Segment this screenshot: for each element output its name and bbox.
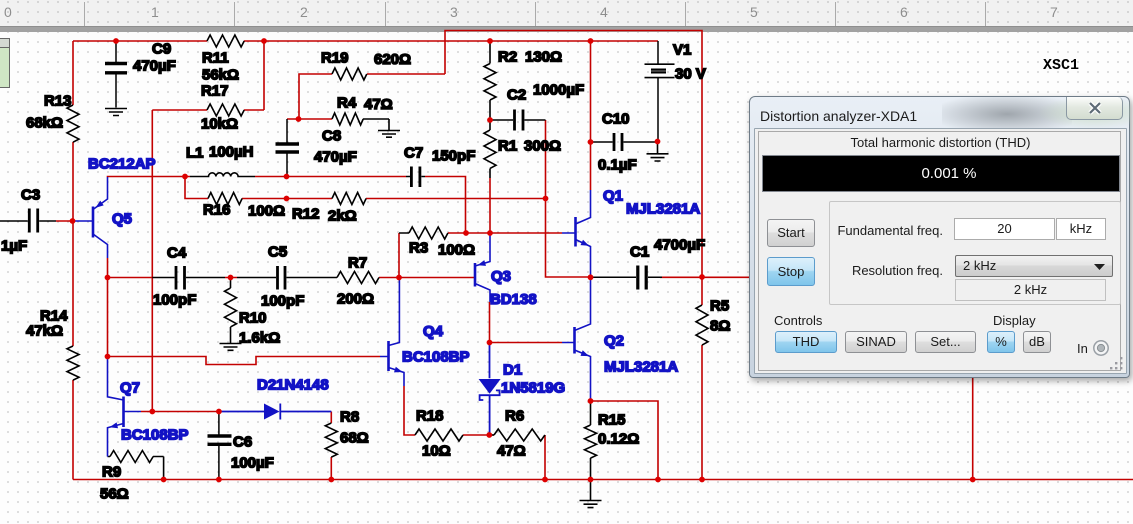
svg-text:470µF: 470µF <box>314 149 357 166</box>
node R16/R12 <box>284 196 290 202</box>
wire Q7 collector to Q4 base <box>108 357 381 365</box>
svg-text:4700µF: 4700µF <box>654 237 705 254</box>
svg-text:100Ω: 100Ω <box>438 242 475 259</box>
top ruler <box>0 0 1133 26</box>
svg-text:10kΩ: 10kΩ <box>201 116 238 133</box>
wire R4 node <box>287 118 332 120</box>
capacitor C8 <box>276 119 357 177</box>
resistor R17 <box>201 83 244 133</box>
svg-text:8Ω: 8Ω <box>710 318 730 335</box>
svg-text:100pF: 100pF <box>153 292 196 309</box>
node rail R5 <box>699 477 705 483</box>
node Q2 emitter/R15 <box>588 398 594 404</box>
node rail R8 <box>328 477 334 483</box>
title text <box>760 108 917 124</box>
dialog client area <box>754 128 1127 374</box>
wire Q2 base node <box>490 342 563 344</box>
wire C2 tap down to output <box>546 120 591 277</box>
fundamental freq label <box>831 223 943 238</box>
wire Q7 base row <box>141 411 220 413</box>
svg-text:47Ω: 47Ω <box>364 96 393 113</box>
dB button <box>1023 331 1051 353</box>
node Q3 coll/Q4 coll/D1/Q2 base <box>487 340 493 346</box>
capacitor C9 <box>105 41 176 108</box>
node Q7 base/R17 <box>149 409 155 415</box>
svg-text:MJL3281A: MJL3281A <box>626 201 700 218</box>
svg-text:BC108BP: BC108BP <box>121 427 189 444</box>
svg-text:150pF: 150pF <box>432 148 475 165</box>
svg-text:200Ω: 200Ω <box>337 291 374 308</box>
node Q7 collector <box>105 354 111 360</box>
svg-text:R16: R16 <box>203 202 231 219</box>
ground of R10 <box>220 344 242 351</box>
svg-text:0.1µF: 0.1µF <box>598 157 637 174</box>
svg-text:R3: R3 <box>409 240 428 257</box>
svg-text:R11: R11 <box>202 50 229 67</box>
distortion analyzer dialog XDA1 <box>749 96 1130 378</box>
svg-text:1000µF: 1000µF <box>533 82 584 99</box>
transistor Q4 <box>380 278 470 387</box>
wire Q1 base node row <box>448 232 562 234</box>
wire D2 cathode to R8 <box>330 412 332 480</box>
ground of C9 <box>105 109 127 116</box>
node C6/D2 <box>216 409 222 415</box>
svg-text:R12: R12 <box>292 206 320 223</box>
wire Q4 emitter to R18 <box>404 386 545 480</box>
svg-text:R1: R1 <box>498 138 517 155</box>
title bar blur blob <box>942 97 1072 128</box>
wire feedback net top <box>445 31 702 278</box>
node Q5 collector <box>105 275 111 281</box>
svg-text:R17: R17 <box>201 83 229 100</box>
ground of V1 <box>647 142 669 162</box>
THD button <box>775 331 837 353</box>
node C9/top rail <box>113 38 119 44</box>
capacitor C3 <box>0 187 56 255</box>
svg-text:56Ω: 56Ω <box>100 486 129 503</box>
svg-text:130Ω: 130Ω <box>525 49 562 66</box>
wire output node to R5 <box>660 277 749 480</box>
node L1 right <box>284 174 290 180</box>
resistor R2 <box>484 41 562 120</box>
svg-text:100µH: 100µH <box>209 144 254 161</box>
node rail C6 <box>216 477 222 483</box>
THD display <box>762 155 1120 192</box>
Start button <box>767 219 815 247</box>
svg-text:R7: R7 <box>348 255 367 272</box>
battery V1 <box>645 41 706 142</box>
svg-text:C4: C4 <box>167 245 187 262</box>
wire R17 to Q7 base vertical <box>151 110 153 412</box>
ground of output stage <box>580 480 602 508</box>
capacitor C7 <box>404 145 475 188</box>
svg-text:100Ω: 100Ω <box>248 203 285 220</box>
wire R16 parallel branch <box>185 177 546 199</box>
svg-text:R9: R9 <box>102 464 121 481</box>
node rail R6 <box>542 477 548 483</box>
diode D2 1N4148 <box>220 377 331 420</box>
svg-text:D21N4148: D21N4148 <box>257 377 329 394</box>
svg-text:68Ω: 68Ω <box>340 430 369 447</box>
SINAD button <box>845 331 907 353</box>
svg-text:R2: R2 <box>498 49 517 66</box>
svg-text:1µF: 1µF <box>1 238 27 255</box>
svg-text:C5: C5 <box>268 244 287 261</box>
Set button <box>915 331 976 353</box>
svg-text:30 V: 30 V <box>675 66 706 83</box>
svg-text:D1: D1 <box>503 362 522 379</box>
resistor R4 <box>332 95 393 126</box>
svg-text:C8: C8 <box>322 128 341 145</box>
node C7/R3 <box>463 230 469 236</box>
wire R3 left to R7 node <box>398 233 400 278</box>
svg-text:BD138: BD138 <box>490 291 537 308</box>
node output C1 left <box>588 274 594 280</box>
node D1/R18/R6 <box>486 432 492 438</box>
wire left vertical R13/R14 branch <box>72 41 74 480</box>
svg-text:Q5: Q5 <box>112 211 132 228</box>
svg-text:MJL3281A: MJL3281A <box>604 359 678 376</box>
node C10/V1 minus <box>655 139 661 145</box>
resistor R19 <box>321 50 411 81</box>
wire Q5 emitter node to L1 <box>108 177 466 234</box>
svg-text:R10: R10 <box>239 310 267 327</box>
svg-text:R5: R5 <box>710 298 729 315</box>
resize grip <box>1109 356 1125 372</box>
resistor R18 <box>415 408 463 460</box>
svg-text:100µF: 100µF <box>231 455 274 472</box>
resistor R8 <box>325 409 368 458</box>
wire C3 to Q5 base <box>56 220 73 222</box>
node rail R15 <box>588 477 594 483</box>
svg-text:C3: C3 <box>21 187 40 204</box>
resolution freq readout <box>955 279 1106 301</box>
svg-text:2kΩ: 2kΩ <box>328 208 357 225</box>
resistor R3 <box>399 227 475 259</box>
wire Q2 emitter row <box>591 401 659 480</box>
node V+ branch <box>588 38 594 44</box>
node rail instrument drop <box>970 477 976 483</box>
svg-text:R15: R15 <box>598 412 626 429</box>
resolution freq dropdown <box>955 255 1113 277</box>
svg-text:R4: R4 <box>337 95 357 112</box>
svg-text:C10: C10 <box>602 111 630 128</box>
node output C1 right/R5 <box>699 274 705 280</box>
svg-text:Q3: Q3 <box>491 268 511 285</box>
svg-text:47Ω: 47Ω <box>497 443 526 460</box>
node C3/Q5 base <box>70 218 76 224</box>
svg-text:68kΩ: 68kΩ <box>26 115 63 132</box>
node R1/Q1 base <box>487 230 493 236</box>
fundamental freq input <box>954 218 1055 240</box>
partially visible instrument icon at left edge <box>0 38 10 88</box>
svg-text:R8: R8 <box>340 409 359 426</box>
transistor Q7 <box>108 357 189 457</box>
inner frame <box>758 131 1121 371</box>
resistor R9 <box>100 451 164 503</box>
svg-text:300Ω: 300Ω <box>524 138 561 155</box>
wire R1 bottom to base node <box>489 178 491 233</box>
wire Q5 collector down <box>107 258 109 357</box>
resistor R5 <box>696 298 730 346</box>
capacitor C4 <box>152 245 225 309</box>
resolution freq label <box>831 263 943 278</box>
resistor R12 <box>292 193 366 225</box>
resistor R14 <box>26 308 79 381</box>
node rail Q2 emitter drop <box>655 477 661 483</box>
node R12/C2 tap <box>543 196 549 202</box>
capacitor C1 <box>591 237 706 290</box>
node R7/R3 <box>396 275 402 281</box>
resistor R13 <box>26 93 79 143</box>
resistor R7 <box>337 255 379 308</box>
svg-text:47kΩ: 47kΩ <box>26 323 63 340</box>
node C10 left <box>588 139 594 145</box>
inductor L1 <box>186 144 255 177</box>
node R2 top <box>487 38 493 44</box>
svg-text:Q2: Q2 <box>604 333 624 350</box>
display group label <box>993 313 1036 328</box>
svg-text:L1: L1 <box>186 145 204 162</box>
svg-text:1N5819G: 1N5819G <box>501 380 565 397</box>
transistor Q5 <box>73 156 156 259</box>
caption total harmonic distortion <box>755 135 1126 150</box>
close button <box>1066 97 1123 120</box>
capacitor C6 <box>208 412 274 480</box>
wire R19 branch <box>299 74 445 119</box>
node rail R9 <box>161 477 167 483</box>
wire top supply rail <box>73 40 658 42</box>
transistor Q1 <box>562 188 700 278</box>
svg-text:C2: C2 <box>507 87 526 104</box>
svg-text:V1: V1 <box>673 42 691 59</box>
svg-text:470µF: 470µF <box>133 58 176 75</box>
capacitor C5 <box>237 244 337 310</box>
ground of R4 <box>378 119 400 137</box>
node L1 left <box>182 174 188 180</box>
svg-text:Q4: Q4 <box>423 323 444 340</box>
transistor Q2 <box>562 277 678 401</box>
resistor R1 <box>484 120 561 178</box>
ruler bottom bar <box>0 26 1133 32</box>
kHz unit box <box>1056 218 1106 240</box>
diode D1 1N5819G schottky <box>479 343 566 436</box>
node R11/R17 <box>261 38 267 44</box>
Stop button <box>767 257 815 286</box>
resistor R11 <box>202 35 244 84</box>
svg-text:XSC1: XSC1 <box>1043 57 1079 74</box>
capacitor C2 <box>490 82 584 131</box>
svg-text:C1: C1 <box>630 244 649 261</box>
svg-text:100pF: 100pF <box>261 293 304 310</box>
svg-text:Q7: Q7 <box>120 380 140 397</box>
svg-text:R13: R13 <box>44 93 72 110</box>
svg-text:1.6kΩ: 1.6kΩ <box>239 330 280 347</box>
svg-text:C7: C7 <box>404 145 423 162</box>
resistor R16 <box>203 193 285 220</box>
wire R7 C4 C5 row <box>108 277 475 279</box>
transistor Q3 <box>474 233 537 308</box>
In connector <box>1077 341 1088 356</box>
svg-text:BC108BP: BC108BP <box>402 349 470 366</box>
controls group label <box>774 313 822 328</box>
svg-text:10Ω: 10Ω <box>422 443 451 460</box>
svg-text:56kΩ: 56kΩ <box>202 67 239 84</box>
group panel <box>829 201 1121 305</box>
resistor R10 <box>225 278 281 347</box>
wire bottom ground rail <box>73 479 1133 481</box>
svg-text:620Ω: 620Ω <box>374 51 411 68</box>
svg-text:C6: C6 <box>233 434 252 451</box>
svg-text:R6: R6 <box>505 408 524 425</box>
wire V+ to Q1 collector <box>590 41 592 190</box>
resistor R6 <box>489 408 545 460</box>
svg-text:R19: R19 <box>321 50 349 67</box>
wire instrument drop right <box>972 372 974 480</box>
wire R17 row <box>152 41 264 110</box>
node C4/C5/R10 <box>228 275 234 281</box>
svg-text:BC212AP: BC212AP <box>88 156 156 173</box>
node R2/R1/C2 <box>487 117 493 123</box>
percent button <box>987 331 1015 353</box>
wire Q3 collector down <box>489 302 491 343</box>
capacitor C10 <box>591 111 658 174</box>
node R19/R4/C8 <box>296 116 302 122</box>
svg-text:Q1: Q1 <box>603 188 623 205</box>
svg-text:C9: C9 <box>152 41 171 58</box>
svg-text:0.12Ω: 0.12Ω <box>598 431 639 448</box>
svg-text:R18: R18 <box>416 408 444 425</box>
resistor R15 <box>585 401 640 480</box>
